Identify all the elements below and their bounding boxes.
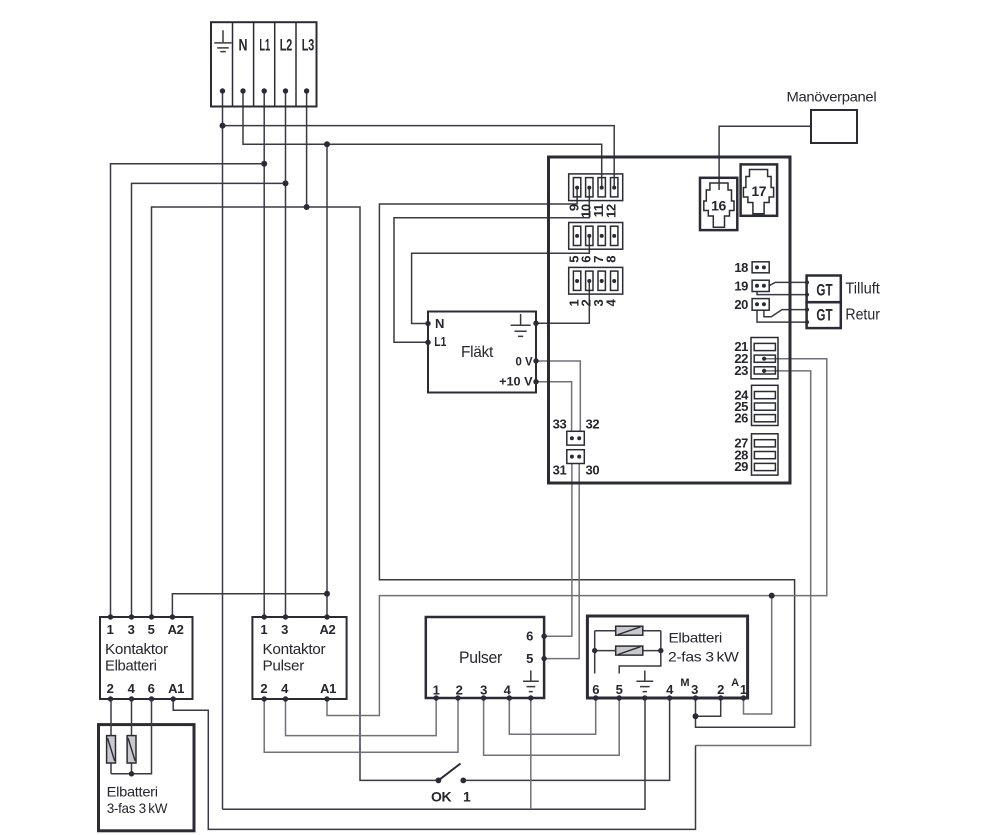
svg-text:20: 20 [734,297,748,312]
svg-text:2: 2 [456,683,463,698]
wire Pulser 1 to Kontaktor Pulser 4 [286,698,437,736]
wire terminal 30 to Pulser 5 [544,464,579,659]
label Kontaktor Pulser [263,641,326,675]
labels 2 4 6 A1 (Kontaktor Elbatteri bottom) [107,681,184,696]
svg-text:Kontaktor: Kontaktor [263,641,326,658]
Flakt pins N, L1, gnd, 0V, +10V [425,321,538,385]
wire L1 (to Kontaktor Pulser 1 and Kontaktor Elbatteri 1) [111,91,265,617]
Kontaktor Elbatteri K1 [100,614,193,701]
svg-text:2: 2 [260,681,267,696]
terminal group 21-23 [751,338,778,379]
svg-text:L2: L2 [280,36,293,54]
svg-text:6: 6 [592,682,599,697]
svg-text:Elbatteri: Elbatteri [107,784,158,800]
labels 5 6 7 8 (rotated) [567,256,619,263]
mains terminal pins [220,88,309,93]
svg-text:L1: L1 [259,36,270,54]
junction 22-net at (771.7,595.6) [769,593,775,599]
svg-text:N: N [239,36,248,54]
svg-text:2: 2 [717,682,724,697]
terminal block 33-32 [567,431,585,445]
svg-text:8: 8 [604,256,619,263]
junction L3 at (306.6,207) [304,204,310,210]
terminal block 18 [752,262,769,273]
svg-text:M: M [680,677,689,689]
svg-text:2: 2 [107,681,114,696]
svg-text:3: 3 [128,622,135,637]
labels 2 4 A1 (Kontaktor Pulser bottom) [260,681,336,696]
ground symbol in Pulser [523,671,539,692]
terminal block 31-30 [567,450,585,464]
svg-text:16: 16 [711,198,726,214]
svg-text:GT: GT [816,281,833,300]
controller unit U1 [549,157,791,483]
wire A1 bus to Kontaktor Elbatteri A1 [173,699,695,829]
wire +10V to terminal 33 [536,382,572,432]
svg-text:L3: L3 [302,36,315,54]
labels 1 3 5 A2 (Kontaktor Elbatteri top) [107,622,184,637]
ground symbol in Flakt [511,314,531,336]
wire terminal 10 to Flakt L1 [394,188,589,343]
svg-text:33: 33 [553,417,567,432]
terminal group 24-26 [752,385,779,425]
svg-text:N: N [435,316,444,331]
switch OK1 [436,764,467,784]
ground symbol in mains block [214,30,231,51]
svg-text:5: 5 [526,651,533,666]
svg-text:OK: OK [431,789,451,805]
wire terminal 22 to Kontaktor Pulser A1 and Elbatteri 2-fas terminal 1 [327,359,827,716]
terminal strip 1-4 [569,267,623,294]
wire L2 (to Kontaktor Pulser 3 and Kontaktor Elbatteri 3) [132,91,286,617]
jack 16 [700,178,737,230]
svg-text:A1: A1 [320,681,336,696]
junction L1 at (264.2,163.7) [261,161,267,167]
svg-text:1: 1 [463,789,471,805]
labels 1 2 3 4 (Pulser bottom) [433,683,512,698]
junction 3-fas at (131.5,773.8) [129,771,134,776]
Elbatteri 3-fas box [99,725,195,831]
wire N (mains N to controller terminal 11, branch to contactor coils A2) [172,91,601,617]
svg-text:L1: L1 [434,334,446,349]
ground symbol in Elbatteri 2-fas [636,671,653,692]
sensor GT Tilluft [805,276,841,303]
svg-text:Pulser: Pulser [263,657,305,674]
wire L3 (to Kontaktor Elbatteri 5 and switch OK1) [152,91,439,780]
svg-text:0 V: 0 V [516,357,533,369]
junction PE at (222.5,125.6) [220,123,226,129]
svg-text:Kontaktor: Kontaktor [105,641,168,658]
junction A2 at (327,593.7) [324,591,330,597]
svg-text:23: 23 [734,363,748,378]
svg-text:3: 3 [281,622,288,637]
Flakt box [428,312,536,393]
svg-text:6: 6 [526,629,533,644]
svg-text:4: 4 [666,682,674,697]
wire Pulser 3 to Elbatteri 2-fas terminal 5 [484,698,620,755]
svg-text:19: 19 [734,279,748,294]
labels 6 5 (Pulser right) [526,629,533,667]
junction 3-2 jumper at (695.5,716.3) [693,713,699,719]
jack 17 [741,164,778,215]
label Elbatteri 2-fas 3kW [668,630,740,665]
junction N at (327,144.3) [324,141,330,147]
wire joining 3-fas elements to terminal 6 [111,699,152,774]
labels 9 10 11 12 (rotated) [567,204,619,218]
wire terminal 19 to GT Tilluft [757,282,807,294]
svg-text:30: 30 [586,463,600,478]
wire terminal 20 to GT Retur [757,310,807,323]
svg-text:1: 1 [260,622,267,637]
wire terminal 31 to Pulser 6 [544,464,572,637]
wire terminal 6 to Flakt N [412,236,590,324]
svg-text:Pulser: Pulser [459,649,503,667]
terminal group 27-29 [752,434,779,475]
svg-text:GT: GT [816,306,833,325]
svg-text:6: 6 [148,681,155,696]
terminal strip 9-12 [569,174,623,201]
svg-text:31: 31 [553,463,567,478]
svg-text:32: 32 [586,417,600,432]
mains terminal block X0 [211,22,317,106]
Elbatteri 2-fas box [587,616,747,701]
svg-text:5: 5 [148,622,155,637]
label Kontaktor Elbatteri [105,641,168,675]
wire terminal 2 to Flakt ground pin [536,281,589,323]
svg-text:17: 17 [751,183,766,199]
svg-text:3: 3 [691,682,698,697]
svg-text:Fläkt: Fläkt [461,344,494,361]
labels 1 3 A2 (Kontaktor Pulser top) [260,622,335,637]
svg-text:Elbatteri: Elbatteri [105,657,157,674]
svg-text:12: 12 [604,204,619,218]
svg-text:A2: A2 [319,622,335,637]
svg-text:2-fas 3 kW: 2-fas 3 kW [668,649,740,665]
svg-text:1: 1 [433,683,440,698]
heater element R4 (3-fas right) [127,699,136,774]
sensor GT Retur [805,302,841,328]
svg-text:3-fas 3 kW: 3-fas 3 kW [107,800,169,816]
terminal block 19 [752,280,769,291]
wire Manoverpanel to jack 16 [719,126,811,190]
svg-text:4: 4 [128,681,136,696]
labels 6 5 4 M3 2 A1 (Elbatteri 2-fas bottom) [592,677,747,697]
svg-text:Manöverpanel: Manöverpanel [787,90,877,105]
label Elbatteri 3-fas 3kW [107,784,169,816]
wire Pulser 2 to Kontaktor Pulser 2 [264,698,458,752]
wire terminal 9 to Elbatteri 2-fas terminals 3/2 [379,188,794,728]
heater element R3 (3-fas left) [107,699,116,774]
wires of 2-fas elements to terminals 6 and 5 [595,631,661,674]
wire terminal 23 to Kontaktor Elbatteri A1 (bottom bus) [696,371,811,746]
svg-text:A2: A2 [168,622,184,637]
net PE (ground from mains block to controller terminal 12 and bottom ground bus) [223,91,646,809]
wire Pulser 4 to Elbatteri 2-fas terminal 6 [509,698,595,734]
terminal block 20 [752,299,769,311]
svg-text:5: 5 [616,682,623,697]
wire OK1 to Elbatteri 2-fas terminal 4 [463,698,669,780]
svg-text:1: 1 [740,682,747,697]
heater element R1 (2-fas top) [595,626,661,635]
svg-text:18: 18 [734,260,748,275]
svg-text:Retur: Retur [845,307,880,324]
Pulser box [426,617,547,701]
junction L2 at (285.5,183.4) [283,180,289,186]
svg-text:+10 V: +10 V [499,377,533,389]
svg-text:4: 4 [604,298,619,306]
label OK 1 [431,789,471,805]
svg-text:A: A [731,677,739,689]
labels 1 2 3 4 (rotated) [567,298,619,306]
svg-text:A1: A1 [168,681,184,696]
svg-text:1: 1 [107,622,114,637]
junctions of 2-fas elements [592,648,664,653]
svg-text:29: 29 [734,459,748,474]
svg-text:4: 4 [504,683,512,698]
Kontaktor Pulser K2 [252,614,346,701]
svg-text:3: 3 [480,683,487,698]
terminal strip 5-8 [569,223,623,250]
svg-text:Elbatteri: Elbatteri [669,630,723,646]
svg-text:26: 26 [734,410,748,425]
svg-text:4: 4 [281,681,289,696]
wire 0V to terminal 32 [536,361,580,431]
svg-text:Tilluft: Tilluft [845,280,880,297]
wire Pulser ground to ground bus [530,698,532,809]
heater element R2 (2-fas bottom) [595,646,661,655]
Manoverpanel box [811,110,857,143]
